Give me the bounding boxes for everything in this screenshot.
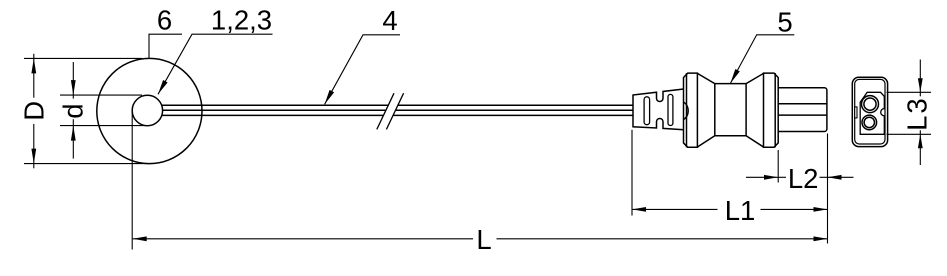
L1 extension line left: [631, 130, 633, 216]
dimension D line: [33, 54, 35, 98]
dimension L3 extension lines: [887, 91, 932, 93]
arrow leader 5: [730, 69, 739, 83]
boot rounded end lens: [684, 102, 688, 119]
rear body inner line upper: [779, 103, 827, 105]
end view latch slot: [855, 107, 857, 118]
sensor disc (item 6): [97, 58, 202, 163]
terminal socket top: [862, 96, 879, 113]
connector body spool (item 5) : left flange: [684, 73, 698, 147]
end view outer shell: [852, 77, 887, 146]
arrow leader 4: [325, 90, 335, 104]
svg-text:1,2,3: 1,2,3: [211, 5, 272, 36]
svg-text:4: 4: [382, 5, 397, 36]
arrow L2 left (points right): [764, 175, 778, 180]
rear body inner line lower: [779, 114, 827, 116]
svg-text:L1: L1: [725, 195, 756, 226]
leader line label 4: [325, 35, 400, 105]
L extension line left: [131, 112, 133, 250]
arrow L2 right (points left): [828, 175, 842, 180]
right flange rim line: [774, 73, 776, 147]
dimension L2 line: [746, 176, 778, 178]
dimension L1 line: [632, 208, 718, 210]
arrow d top (points down): [71, 80, 76, 95]
arrow L3 bottom (points up): [918, 134, 923, 148]
sensor element (items 1,2,3): [132, 95, 162, 125]
svg-text:L3: L3: [902, 96, 933, 131]
dimension L3 arrow tails: [919, 60, 921, 97]
svg-text:d: d: [57, 104, 88, 119]
arrow L1 right: [814, 207, 828, 212]
arrow D top: [31, 58, 36, 73]
boot slot 2: [668, 94, 673, 125]
terminal socket bottom: [862, 115, 877, 130]
arrow L right: [814, 236, 828, 241]
left flange rim line: [686, 73, 688, 147]
arrow L3 top (points down): [918, 78, 923, 92]
leader line label 1,2,3: [158, 34, 273, 94]
shared extension line right (L, L1, L2): [827, 134, 829, 244]
connector rear body (L2 section): [779, 88, 827, 132]
svg-text:5: 5: [777, 7, 792, 38]
dimension L line: [133, 238, 473, 240]
spool waist: [697, 73, 763, 147]
svg-text:D: D: [18, 101, 49, 121]
strain relief boot: [633, 89, 684, 130]
arrow d bottom (points up): [71, 126, 76, 141]
arrow L1 left: [632, 207, 646, 212]
dimension D extension lines: [24, 57, 142, 59]
leader line label 5: [730, 35, 794, 84]
arrowheads: [31, 58, 922, 241]
dimension d arrow tails: [72, 62, 74, 99]
spool right flange: [764, 73, 779, 147]
svg-text:L2: L2: [788, 163, 819, 194]
end view inner shell: [855, 79, 885, 144]
arrow D bottom: [31, 149, 36, 164]
svg-text:6: 6: [157, 5, 172, 36]
L2 extension line left: [777, 150, 779, 183]
svg-text:L: L: [476, 224, 491, 255]
leader line label 6: [149, 34, 182, 58]
dimension d extension lines: [60, 94, 142, 96]
end view insert outline: [860, 92, 884, 134]
arrow L left: [133, 236, 147, 241]
boot slot 1: [644, 97, 650, 125]
cable break symbol: [377, 93, 404, 129]
cable (item 4): [162, 105, 633, 115]
arrow leader 1,2,3: [158, 80, 168, 94]
